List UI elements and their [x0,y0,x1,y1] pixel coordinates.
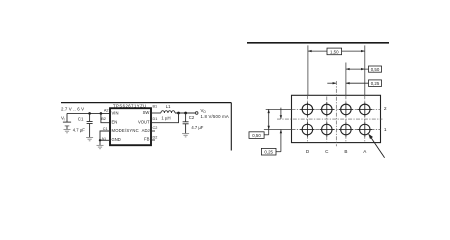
svg-text:0,25: 0,25 [371,81,380,86]
ball A2 [358,102,372,116]
inductor L1 [161,111,175,113]
dimension 0,25 left [261,108,282,155]
svg-text:B: B [344,149,347,154]
center line vertical [335,81,337,146]
stub FB [151,139,155,141]
svg-text:ADJ: ADJ [142,128,150,133]
svg-text:C1: C1 [103,127,108,131]
svg-text:0,25: 0,25 [264,150,273,155]
ball B1 [339,122,353,136]
ball C2 [320,102,334,116]
svg-text:D1: D1 [153,117,158,121]
node J3 [99,139,101,141]
node J1 [88,112,91,115]
svg-text:I: I [64,118,65,122]
row 2 center line [266,108,292,110]
dimension 0,50 top [346,66,382,72]
svg-text:A: A [363,149,367,154]
output terminal [195,112,198,115]
svg-text:SW: SW [143,110,150,115]
svg-text:FB: FB [144,137,150,142]
svg-text:C1: C1 [78,116,84,121]
svg-text:4.7 µF: 4.7 µF [191,125,203,130]
package outline [292,95,381,142]
svg-text:2.7 V .. 6 V: 2.7 V .. 6 V [61,106,84,111]
pointer arrow to ball A1 [368,134,384,158]
svg-text:2: 2 [384,106,387,112]
svg-text:A2: A2 [104,109,109,113]
row 1 center line [264,129,292,131]
ball C1 [320,122,334,136]
svg-text:C2: C2 [189,115,195,120]
svg-text:VOUT: VOUT [138,119,150,124]
node J2 [100,112,103,115]
wire EN [101,113,110,122]
column line C [326,97,328,142]
wire VIN [67,112,110,114]
svg-text:D2: D2 [153,136,158,140]
column line D [307,45,309,95]
svg-text:0,50: 0,50 [371,67,380,72]
ground (C1) [86,137,93,139]
capacitor C1 [89,113,91,121]
ball A1 [358,122,372,136]
svg-text:4.7 µF: 4.7 µF [73,127,85,132]
wire MODE/SYNC to GND [100,131,110,140]
svg-text:C2: C2 [153,126,158,130]
ball B2 [339,102,353,116]
wire VOUT feedback [151,113,179,123]
svg-text:1: 1 [384,127,387,133]
stub ADJ [151,130,155,132]
dimension 0,25 top [327,80,381,87]
dimension 0,50 left [249,109,270,138]
node J5 [184,112,187,115]
node J4 [177,112,180,115]
ball D1 [300,122,314,136]
center line horizontal [277,118,383,120]
svg-text:0,50: 0,50 [252,133,261,138]
svg-text:D: D [306,149,310,154]
svg-text:EN: EN [112,120,118,125]
svg-text:GND: GND [112,137,121,142]
ball D2 [300,102,314,116]
capacitor C2 [185,113,187,122]
ground (VI) [64,129,71,131]
svg-text:1,50: 1,50 [330,49,339,54]
dimension 1,50 [308,48,365,55]
svg-text:B2: B2 [101,117,106,121]
svg-text:L1: L1 [166,104,171,109]
column line B [345,63,347,96]
column line A [364,45,366,95]
IC U1 TPS62671YZU [110,108,151,145]
svg-text:B1: B1 [153,105,158,109]
svg-text:C: C [325,149,329,154]
svg-text:VIN: VIN [112,110,119,115]
wire L1 to node [175,112,195,114]
wire SW [151,112,161,114]
ground (GND) [97,144,104,146]
svg-text:MODE/SYNC: MODE/SYNC [112,128,139,133]
svg-text:1 µH: 1 µH [161,115,170,120]
ground (C2) [182,133,189,135]
wire GND pin [100,139,110,141]
svg-text:1.8 V/500 mA: 1.8 V/500 mA [201,114,229,119]
svg-text:TPS62671YZU: TPS62671YZU [113,103,147,108]
